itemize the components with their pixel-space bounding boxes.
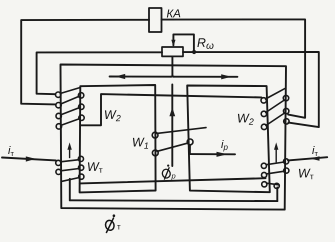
svg-text:iт: iт <box>312 145 318 158</box>
flux arrow phi_P in middle limb <box>171 85 173 167</box>
Rsh slider tap wire <box>173 34 194 51</box>
wire: bottom connection inside windows (WT leads across) <box>80 178 266 183</box>
W1 lower diagonal <box>157 143 187 151</box>
coil diagonals <box>60 88 80 94</box>
winding WT left on left limb <box>56 156 84 181</box>
secondary current arrow wire (left part, arrow pointing left) <box>110 76 171 78</box>
left curls <box>261 98 266 103</box>
resistor Rsh box <box>162 47 183 56</box>
junction dot at Rsh right terminal <box>192 50 196 54</box>
W1 top lead diagonal <box>157 128 206 134</box>
left curls <box>56 92 61 97</box>
relay KA box <box>149 8 162 32</box>
wire: Rsh right lead (down right to W2 right winding bottom) <box>183 52 319 127</box>
svg-text:iт: iт <box>8 145 14 158</box>
wire: Rsh tap down into core region <box>171 56 172 76</box>
flux arrow in right limb <box>275 148 277 162</box>
svg-text:КА: КА <box>166 8 181 20</box>
svg-text:W1: W1 <box>132 135 149 151</box>
wire: i_T right entering WT right <box>288 157 327 160</box>
left core window <box>80 85 156 192</box>
svg-text:W2: W2 <box>104 108 121 124</box>
wire: WT left bottom lead down <box>69 179 71 201</box>
right curls <box>283 95 288 100</box>
svg-text:р: р <box>171 172 176 181</box>
right core window <box>187 86 270 193</box>
wire: Rsh left lead (down left to W2 left winding top) <box>37 52 162 94</box>
wire: KA left lead (top loop, left side down to W2 left winding) <box>21 20 149 105</box>
winding WT right on right limb <box>261 159 289 189</box>
wire: WT right bottom lead down <box>276 188 278 202</box>
svg-text:Wт: Wт <box>298 166 314 181</box>
label phi_P <box>161 165 171 180</box>
winding W1 on middle limbs <box>152 128 206 156</box>
flux arrow in left limb <box>69 147 71 158</box>
wire: i_T left entering WT left <box>2 158 56 161</box>
wire: bottom cross connection under windows <box>70 199 277 202</box>
label phi_T <box>104 214 115 233</box>
winding W2 left: coil turns on left limb <box>56 88 85 130</box>
current arrow i_P wire <box>190 153 235 155</box>
W1 right lead down to iP wire <box>189 145 191 154</box>
wire: W2 left inner lead (step inside window, to W2 right) <box>80 94 261 125</box>
winding W2 right: coil turns on right limb <box>261 89 289 130</box>
svg-text:iр: iр <box>221 139 228 152</box>
svg-text:W2: W2 <box>237 111 254 127</box>
Rsh slider arrowhead <box>171 40 175 47</box>
coil diagonals <box>266 89 285 99</box>
svg-text:Rω: Rω <box>197 36 214 52</box>
secondary current arrow wire (right part, arrow pointing right) <box>174 76 238 78</box>
wire: KA right lead (down right side to W2 right winding) <box>162 19 306 117</box>
svg-text:т: т <box>117 223 121 232</box>
transformer core outer rectangle <box>61 65 287 210</box>
right curls <box>78 93 83 98</box>
svg-text:Wт: Wт <box>87 160 103 175</box>
